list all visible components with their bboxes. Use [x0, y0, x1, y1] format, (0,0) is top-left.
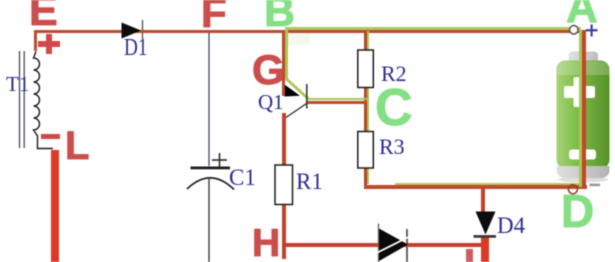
diode D2 triangle [379, 229, 408, 262]
transformer T1 winding [34, 52, 54, 149]
transformer minus mark [41, 134, 60, 139]
wire smudge near B [288, 33, 310, 45]
node E [29, 0, 58, 33]
wire: green top B-A [285, 27, 581, 29]
battery body [557, 61, 610, 169]
transistor Q1 emitter line [287, 80, 307, 98]
diode D2 white slash [378, 237, 410, 253]
wire: base line green [307, 98, 367, 101]
label R1 [296, 170, 323, 193]
label R2 [381, 63, 407, 85]
wire: R2-R3 green [367, 87, 369, 132]
terminal circle A [570, 26, 579, 35]
wire: top horizontal E-A [34, 30, 586, 34]
label Q1 [258, 92, 284, 113]
wire F vertical thin lead [208, 32, 210, 166]
battery bottom cap [557, 166, 610, 178]
wire: D4 bottom thick [481, 237, 489, 262]
label C1 [229, 166, 256, 189]
wire: B vertical green [285, 30, 288, 79]
node I [466, 249, 473, 262]
diode D4 triangle [476, 212, 496, 235]
resistor R2 [358, 50, 374, 88]
wire: R2-R3 red [364, 87, 367, 132]
node L [65, 126, 89, 166]
wire: R1 bottom red [282, 203, 286, 259]
wire: bottom horizontal red [364, 185, 587, 189]
wire: R3 bottom red [364, 167, 367, 186]
transformer T1 core lines [19, 51, 21, 148]
diode D2 cathode bar [406, 229, 408, 262]
battery plus sign [564, 77, 595, 107]
wire: battery internal red [582, 30, 586, 188]
node H [252, 224, 280, 262]
diode D4 cathode bar [474, 235, 497, 238]
diode D1 [122, 23, 142, 39]
wire: R2 top stub green [367, 31, 369, 50]
battery minus sign [569, 150, 596, 160]
node C [375, 82, 413, 134]
node B [264, 0, 295, 34]
wire: L thick red [51, 150, 60, 262]
label D1 [124, 36, 147, 60]
label D4 [497, 214, 525, 237]
transistor Q1 collector line [286, 104, 307, 118]
battery body top highlight [558, 61, 610, 75]
battery top cap [569, 52, 599, 65]
terminal circle D [568, 185, 577, 194]
wire: D4 top lead [481, 187, 486, 212]
wire: H horizontal [282, 243, 486, 247]
node F [201, 0, 227, 34]
minus near D [590, 184, 601, 187]
wire: E vertical [34, 30, 37, 51]
plus near A [590, 25, 592, 37]
node G [252, 49, 285, 91]
wire: collector red upper [282, 113, 286, 166]
wire: base line red [307, 101, 366, 104]
transformer plus mark [38, 41, 60, 47]
wire: bottom horizontal green [395, 183, 580, 185]
wire: emitter diag green (svg below) [284, 76, 314, 102]
resistor R1 [275, 165, 293, 205]
transistor Q1 emitter arrow [285, 85, 301, 97]
label R3 [379, 136, 405, 158]
node D [561, 188, 594, 234]
diode D2 anode line [378, 224, 380, 262]
transistor Q1 base bar [306, 84, 308, 109]
wire: B vertical red [282, 30, 286, 96]
capacitor C1 [187, 153, 234, 262]
label T1 [6, 74, 29, 95]
wire: R2 top stub red [364, 31, 367, 50]
wire: battery internal green [579, 30, 582, 187]
diode D1 cathode bar [142, 20, 144, 40]
resistor R3 [358, 132, 374, 169]
node A [566, 0, 598, 30]
battery shadow [558, 177, 608, 183]
wire: R3 bottom green [367, 167, 369, 184]
